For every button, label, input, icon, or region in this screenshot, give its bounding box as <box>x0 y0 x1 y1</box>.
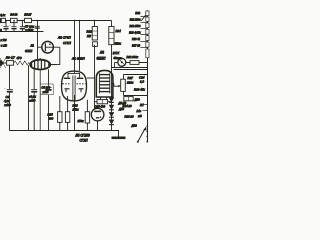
switch S1 wiper <box>138 129 145 142</box>
wire R14 feed <box>111 21 113 27</box>
node F <box>79 20 81 22</box>
node G <box>94 20 96 22</box>
svg-text:Е4: Е4 <box>140 103 144 107</box>
potentiometer wiper arrow <box>114 85 120 87</box>
resistor R3 <box>0 18 6 22</box>
svg-text:мВ: мВ <box>138 114 142 118</box>
svg-text:R24 20: R24 20 <box>123 104 132 108</box>
svg-text:R14: R14 <box>116 29 122 33</box>
svg-text:СГ1П: СГ1П <box>63 41 72 45</box>
wire drop left2 <box>28 65 30 130</box>
svg-text:R9 4,7: R9 4,7 <box>6 56 15 60</box>
capacitor C3 lower <box>7 88 13 90</box>
transistor T1 <box>42 41 54 53</box>
tube L1 cathode left <box>65 88 70 90</box>
wire L5 leg2 <box>48 69 50 87</box>
wire lower rail <box>0 31 44 33</box>
wire L1 center leg <box>74 95 76 131</box>
node B <box>13 20 15 22</box>
svg-text:Л4: Л4 <box>99 51 104 55</box>
node E <box>74 20 76 22</box>
svg-text:2М: 2М <box>86 34 92 38</box>
capacitor C1 <box>1 21 9 32</box>
wire L1 leg4 <box>86 100 88 112</box>
wire L1 leg2 <box>67 96 69 112</box>
node edge blob <box>0 19 2 23</box>
label C5 boxed <box>40 84 53 95</box>
svg-text:R5 27: R5 27 <box>24 13 31 17</box>
svg-text:Д10: Д10 <box>134 98 141 102</box>
capacitor C4 <box>27 86 37 93</box>
wire L4 bottom lead <box>97 121 99 131</box>
svg-text:R4 38: R4 38 <box>10 13 17 17</box>
resistor R5 <box>25 18 32 22</box>
wire R12 top <box>94 21 96 27</box>
svg-text:R21 130к: R21 130к <box>130 19 141 22</box>
wire R25 left <box>95 101 98 103</box>
resistor R4 <box>11 18 18 22</box>
lamp L6 <box>118 58 126 66</box>
diode D7 <box>109 112 114 116</box>
node rail end blob <box>0 29 2 32</box>
svg-text:R28 20: R28 20 <box>125 114 134 118</box>
svg-text:R23 180к: R23 180к <box>127 55 139 59</box>
potentiometer R27 <box>121 79 126 91</box>
capacitor C5 <box>48 84 50 87</box>
svg-text:R17 10: R17 10 <box>132 44 141 47</box>
wire vertical feed <box>37 21 39 60</box>
tube L3 envelope <box>96 70 113 97</box>
wire L1 anode stem <box>74 21 76 74</box>
svg-text:220к: 220к <box>126 80 134 84</box>
svg-text:и 1В: и 1В <box>1 44 7 48</box>
diode D5 <box>109 98 114 102</box>
tube L1 plate left <box>64 77 70 79</box>
svg-text:+: + <box>9 23 11 27</box>
svg-text:6Ж1П: 6Ж1П <box>97 57 106 61</box>
svg-text:Л2 СГ3П: Л2 СГ3П <box>57 36 71 40</box>
svg-text:R20 1500: R20 1500 <box>130 25 141 28</box>
wire top rail <box>0 20 112 22</box>
resistor R16 <box>65 112 69 123</box>
wire ground drop <box>118 131 120 137</box>
wire R12 bottom <box>94 45 96 109</box>
potentiometer R10 zigzag <box>14 61 31 65</box>
tube L1 grid right <box>76 83 84 85</box>
capacitor C2 <box>9 21 17 32</box>
tube L1 cathode hooks <box>66 89 81 92</box>
svg-text:150к: 150к <box>73 108 80 112</box>
tube L3 hatching <box>100 75 110 92</box>
wire L3 right lead <box>112 83 115 86</box>
svg-text:470: 470 <box>17 56 22 60</box>
svg-text:R26 47к: R26 47к <box>134 88 145 92</box>
svg-text:МТХ: МТХ <box>113 51 120 55</box>
resistor R28 <box>124 97 133 101</box>
wire L5 leg1 <box>33 69 35 89</box>
wire drop left1 <box>9 65 11 89</box>
wire bottom bus <box>10 130 120 132</box>
ladder labels <box>129 12 141 47</box>
svg-text:+: + <box>4 86 6 90</box>
svg-text:390: 390 <box>49 116 54 120</box>
potentiometer ladder wiper arrow <box>141 13 147 21</box>
resistor R14 <box>109 27 114 45</box>
svg-text:+: + <box>27 86 29 90</box>
svg-text:14в: 14в <box>137 109 142 113</box>
wire R25 right <box>108 101 112 103</box>
wire right bus <box>147 10 149 142</box>
capacitor C3 <box>20 21 25 32</box>
svg-text:R18 41: R18 41 <box>132 38 141 41</box>
tube L1 grid left <box>62 83 70 85</box>
wire divider top <box>124 75 148 80</box>
svg-text:Л4 СГ150: Л4 СГ150 <box>75 134 90 138</box>
wire R27 bottom <box>124 91 148 95</box>
node D <box>37 20 39 22</box>
node A <box>5 20 7 22</box>
wire L5 right lead <box>50 64 57 66</box>
resistor R17 <box>85 112 89 123</box>
resistor ladder boxes <box>146 11 149 58</box>
svg-text:Л1: Л1 <box>30 44 35 48</box>
svg-text:C7 4,0х: C7 4,0х <box>25 25 35 29</box>
tube L5 <box>30 58 51 130</box>
wire grid feed <box>79 21 81 72</box>
svg-text:к R9: к R9 <box>1 38 7 42</box>
connector X1 <box>0 58 6 68</box>
wire tick t2 <box>143 110 148 112</box>
resistor R23 <box>130 61 139 65</box>
tube L3 side bars <box>99 73 109 93</box>
node C <box>22 20 24 22</box>
svg-text:1,0: 1,0 <box>140 80 144 84</box>
svg-text:510к: 510к <box>115 42 122 46</box>
wire tick t1 <box>143 104 148 106</box>
tube L1 cathode right <box>79 88 84 90</box>
wire lamp left <box>115 63 119 68</box>
resistor R15 <box>58 112 62 123</box>
svg-text:СГ2П: СГ2П <box>80 139 89 143</box>
wire L3 leg1 <box>99 97 101 102</box>
tube L1 envelope <box>62 71 87 101</box>
ladder tap wires <box>140 17 147 48</box>
svg-text:150к: 150к <box>78 119 85 123</box>
wire feedback line1 <box>112 67 148 69</box>
svg-text:6П1П: 6П1П <box>25 49 33 53</box>
switch S1 contacts <box>146 126 148 128</box>
wire T1 base lead <box>38 46 42 48</box>
tube L1 anodes <box>68 73 80 77</box>
diode D8 <box>109 120 114 124</box>
wire L3 leg2 <box>106 97 108 102</box>
wire feedback line2 <box>114 69 148 71</box>
wire R14 down <box>111 45 113 131</box>
wire T1 right lead <box>50 47 60 64</box>
capacitor C6 <box>35 25 40 27</box>
svg-text:Д12: Д12 <box>131 124 138 128</box>
svg-text:+: + <box>1 23 3 27</box>
svg-text:R22: R22 <box>135 12 140 15</box>
wire X1 to R9 <box>4 62 6 64</box>
tube L4 bottom <box>91 108 104 121</box>
svg-text:3,3к: 3,3к <box>0 13 6 17</box>
wire L1 leg1 <box>59 96 61 112</box>
ground <box>112 137 126 140</box>
svg-text:х400: х400 <box>28 98 36 102</box>
tube L1 plate right <box>77 77 83 79</box>
wire L1 grid right lead <box>87 77 95 79</box>
resistor R25 <box>97 100 108 104</box>
resistor R12 <box>92 27 97 41</box>
svg-text:х 4000: х 4000 <box>24 28 33 32</box>
svg-text:Л1 6Н2П: Л1 6Н2П <box>71 57 85 61</box>
resistor R9 <box>7 61 14 66</box>
svg-text:х400: х400 <box>4 103 12 107</box>
diode D6 <box>109 105 114 109</box>
svg-text:R19 4,05к: R19 4,05к <box>129 31 141 34</box>
